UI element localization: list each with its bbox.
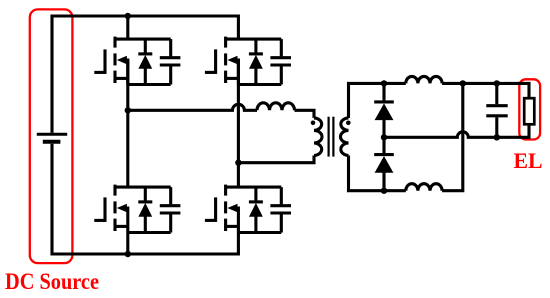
transistor Q4 (lower-right): body arrow — [227, 204, 237, 212]
diode D1: cathode bar — [138, 52, 152, 55]
diode D5: triangle — [375, 103, 394, 120]
diode D5: anode stub — [382, 120, 385, 138]
wire: node A to series inductor, hop over right leg — [128, 104, 257, 110]
diode D3: cathode bar — [138, 200, 152, 203]
capacitor C3: top plate — [160, 204, 181, 207]
node: D5/D6 midpoint (output-) — [381, 134, 387, 140]
wire: parallel box bottom of Q3 (lower-left) — [128, 231, 171, 234]
wire: Lr to transformer primary — [295, 110, 315, 118]
transistor Q4 (lower-right): channel source segment — [224, 219, 227, 231]
node: join wire / output+ rail — [460, 80, 466, 86]
inductor Lr (series resonant) — [257, 103, 295, 110]
wire: secondary top to rail X, inductor L1 feed — [349, 83, 406, 118]
transistor Q2 (upper-right): drain lead (box top) — [226, 38, 282, 41]
wire: parallel box bottom of Q4 (lower-right) — [238, 231, 281, 234]
diode D2: anode stub — [254, 68, 257, 85]
wire: output- rail with hop over join wire, to load EL bottom — [384, 124, 529, 137]
transistor Q4 (lower-right): gate lead — [205, 219, 216, 222]
transistor Q1 (upper-left): drain lead (box top) — [115, 38, 171, 41]
wire: lower-left source to bottom rail — [126, 233, 129, 255]
capacitor C4: top stub — [280, 187, 283, 204]
wire: upper-left drain from top rail — [126, 16, 129, 39]
diode D4: cathode stub — [254, 187, 257, 200]
transistor Q4 (lower-right): channel drain segment — [224, 185, 227, 196]
diode D4: anode stub — [254, 216, 257, 233]
diode D5: cathode bar — [374, 100, 394, 103]
capacitor C2: top plate — [270, 56, 291, 59]
inductor L1 (top output) — [406, 76, 442, 83]
wire: parallel box bottom of Q1 (upper-left) — [128, 83, 171, 86]
transistor Q3 (lower-left): source lead — [115, 225, 128, 228]
diode D6: anode stub — [382, 172, 385, 190]
capacitor Co: top stub — [495, 83, 498, 104]
node: rail X / D5 junction — [381, 80, 387, 86]
diode D1: anode stub — [144, 68, 147, 85]
transistor Q2 (upper-right): gate lead — [205, 71, 216, 74]
diode D1: triangle — [138, 55, 152, 69]
transistor Q4 (lower-right): source/body vertical — [237, 207, 240, 233]
transistor Q4 (lower-right): source lead — [226, 225, 239, 228]
wire: L2 up-join to output+ rail — [442, 83, 463, 190]
transistor Q1 (upper-left): source lead — [115, 77, 128, 80]
node: bottom rail / left leg junction — [125, 251, 131, 257]
transformer T1 primary winding — [314, 118, 322, 156]
wire: parallel box bottom of Q2 (upper-right) — [238, 83, 281, 86]
transformer T1 secondary polarity dot — [346, 121, 351, 126]
transistor Q3 (lower-left): body arrow — [117, 204, 127, 212]
capacitor C4: bottom plate — [270, 211, 291, 214]
transistor Q3 (lower-left): gate bar — [103, 197, 106, 222]
transistor Q3 (lower-left): gate lead — [94, 219, 105, 222]
transistor Q3 (lower-left): source/body vertical — [126, 207, 129, 233]
transistor Q1 (upper-left): gate lead — [94, 71, 105, 74]
node A: left bridge midpoint — [125, 107, 131, 113]
inductor L2 (bottom output) — [406, 184, 442, 191]
wire: left leg (upper source to lower drain through mid node A) — [126, 60, 129, 187]
transistor Q3 (lower-left): channel drain segment — [113, 185, 116, 196]
transistor Q4 (lower-right): drain lead (box top) — [226, 186, 282, 189]
diode D6: cathode bar — [374, 153, 394, 156]
battery V long plate — [37, 133, 67, 136]
transistor Q2 (upper-right): gate bar — [214, 49, 217, 74]
diode D6: cathode stub — [382, 137, 385, 153]
diode D2: triangle — [249, 55, 263, 69]
transistor Q2 (upper-right): channel source segment — [224, 71, 227, 83]
transistor Q1 (upper-left): source/body vertical — [126, 59, 129, 85]
capacitor C3: top stub — [169, 187, 172, 204]
battery V short plate — [43, 140, 61, 144]
transistor Q4 (lower-right): gate bar — [214, 197, 217, 222]
capacitor C4: top plate — [270, 204, 291, 207]
transistor Q2 (upper-right): source/body vertical — [237, 59, 240, 85]
svg-text:DC Source: DC Source — [5, 269, 99, 295]
node: output+ / Co junction — [494, 80, 500, 86]
capacitor C1: top stub — [169, 39, 172, 56]
diode D2: cathode bar — [249, 52, 263, 55]
capacitor C1: bottom stub — [169, 66, 172, 84]
wire: DC+ lead and top rail and upper-right drain — [52, 16, 238, 133]
node: rail Y / D6 junction — [381, 188, 387, 194]
wire: L1 to output+ and down to load EL — [442, 83, 529, 98]
transistor Q1 (upper-left): channel source segment — [113, 71, 116, 83]
capacitor C4: bottom stub — [280, 214, 283, 232]
capacitor Co: bottom plate — [486, 114, 507, 117]
capacitor C1: top plate — [160, 56, 181, 59]
diode D4: cathode bar — [249, 200, 263, 203]
svg-text:EL: EL — [514, 148, 543, 173]
transistor Q3 (lower-left): channel body segment — [113, 201, 116, 213]
wire: right leg (upper source to lower drain through node B) — [237, 60, 240, 187]
node: top rail / left leg junction — [125, 13, 131, 19]
diode D3: triangle — [138, 203, 152, 217]
diode D2: cathode stub — [254, 39, 257, 52]
transistor Q1 (upper-left): channel body segment — [113, 53, 116, 65]
resistor EL load body — [524, 98, 534, 124]
transistor Q1 (upper-left): channel drain segment — [113, 37, 116, 48]
transformer T1 primary polarity dot — [311, 121, 316, 126]
transistor Q1 (upper-left): gate bar — [103, 49, 106, 74]
transistor Q3 (lower-left): drain lead (box top) — [115, 186, 171, 189]
capacitor C3: bottom plate — [160, 211, 181, 214]
wire: DC- lead, bottom rail, lower-right source leg — [52, 144, 238, 254]
DC source highlight box (red) — [30, 9, 73, 263]
node B: right bridge midpoint — [235, 160, 241, 166]
transistor Q1 (upper-left): body arrow — [117, 56, 127, 64]
transistor Q2 (upper-right): source lead — [226, 77, 239, 80]
capacitor C2: bottom stub — [280, 66, 283, 84]
diode D1: cathode stub — [144, 39, 147, 52]
diode D6: triangle — [375, 156, 394, 173]
capacitor C2: bottom plate — [270, 63, 291, 66]
transformer T1 secondary winding — [341, 118, 349, 156]
diode D3: cathode stub — [144, 187, 147, 200]
transistor Q2 (upper-right): channel drain segment — [224, 37, 227, 48]
diode D3: anode stub — [144, 216, 147, 233]
capacitor Co: bottom stub — [495, 117, 498, 137]
transistor Q3 (lower-left): channel source segment — [113, 219, 116, 231]
transformer T1 core line 2 — [332, 117, 334, 157]
transistor Q2 (upper-right): body arrow — [227, 56, 237, 64]
diode D5: cathode stub — [382, 83, 385, 100]
transistor Q4 (lower-right): channel body segment — [224, 201, 227, 213]
wire: primary return to node B — [238, 156, 314, 163]
transformer T1 core line 1 — [328, 117, 330, 157]
capacitor C1: bottom plate — [160, 63, 181, 66]
capacitor C2: top stub — [280, 39, 283, 56]
node: output- / Co junction — [494, 134, 500, 140]
capacitor Co: top plate — [486, 104, 507, 107]
EL load highlight box (red) — [519, 79, 540, 139]
diode D4: triangle — [249, 203, 263, 217]
wire: secondary bottom rail Y, L2 feed — [349, 156, 406, 191]
transistor Q2 (upper-right): channel body segment — [224, 53, 227, 65]
capacitor C3: bottom stub — [169, 214, 172, 232]
